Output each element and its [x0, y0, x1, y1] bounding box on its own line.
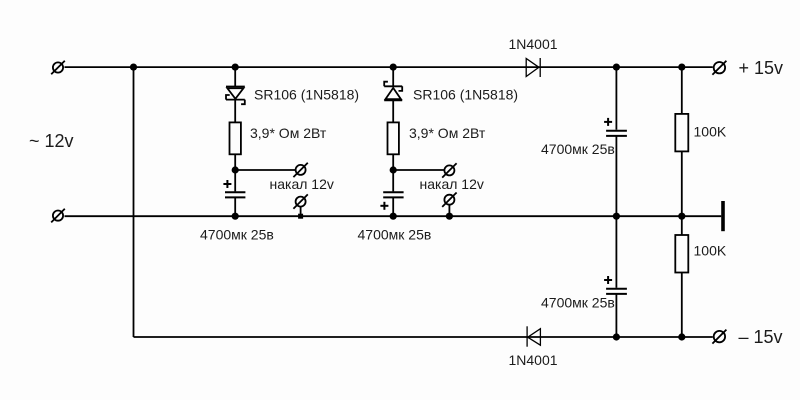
wire right cap top vertical: [615, 67, 617, 130]
wire bottom rail: [134, 336, 713, 338]
junction top rail branch 1: [232, 64, 239, 71]
plus sign capacitor branch 2: [380, 202, 388, 210]
wire resistor 100K top leads: [681, 67, 683, 114]
diode 1N4001 top (pointing right): [526, 58, 540, 77]
wire right cap bottom vertical: [615, 216, 617, 288]
wire right cap to middle rail: [615, 136, 617, 216]
plus sign capacitor bottom right: [604, 276, 612, 284]
wire branch1 lower heater terminal to rail: [300, 207, 302, 216]
capacitor 4700mk branch 2: [383, 192, 403, 197]
terminal heater lower branch 1: [293, 194, 307, 208]
junction top rail branch 2: [390, 64, 397, 71]
svg-text:+ 15v: + 15v: [739, 58, 784, 78]
wire left vertical drop to bottom rail: [133, 67, 135, 337]
terminal -15v: [712, 330, 726, 344]
svg-text:~ 12v: ~ 12v: [29, 131, 74, 151]
wire branch1 capacitor to rail: [234, 197, 236, 216]
terminal heater upper branch 1: [293, 163, 307, 177]
junction branch2 heater tap: [390, 166, 397, 173]
junction top rail right cap: [613, 64, 620, 71]
terminal heater upper branch 2: [442, 163, 456, 177]
terminal heater lower branch 2: [442, 193, 456, 207]
svg-text:1N4001: 1N4001: [509, 352, 558, 368]
svg-text:1N4001: 1N4001: [509, 36, 558, 52]
svg-text:4700мк 25в: 4700мк 25в: [358, 227, 432, 243]
terminal AC input middle-left: [51, 209, 65, 223]
wire branch1 diode to resistor: [234, 100, 236, 123]
junction middle rail right cap: [613, 213, 620, 220]
plus sign capacitor top right: [604, 118, 612, 126]
wire bottom right cap to bottom rail: [615, 294, 617, 337]
schottky diode SR106 branch 1 (cathode down): [226, 87, 245, 105]
resistor 100K bottom: [675, 235, 688, 273]
junction bottom rail right cap: [613, 333, 620, 340]
junction square branch1 heater on rail: [298, 214, 303, 219]
svg-text:– 15v: – 15v: [739, 327, 783, 347]
wire 100K bottom to bottom rail: [681, 273, 683, 338]
wire 100K top to middle rail: [681, 151, 683, 216]
wire branch2 diode to resistor: [392, 100, 394, 122]
wire 100K bottom upper lead: [681, 216, 683, 235]
svg-text:4700мк 25в: 4700мк 25в: [541, 141, 615, 157]
junction branch2 heater on rail: [446, 213, 453, 220]
wire branch2 lower heater terminal to rail: [448, 205, 450, 216]
wire branch2 heater tap to terminal: [393, 169, 444, 171]
svg-text:100K: 100K: [694, 243, 727, 259]
svg-text:3,9* Ом 2Вт: 3,9* Ом 2Вт: [250, 125, 327, 141]
capacitor 4700mk top right: [606, 131, 627, 136]
svg-text:4700мк 25в: 4700мк 25в: [200, 227, 274, 243]
diode 1N4001 bottom (pointing left): [527, 326, 540, 346]
svg-text:3,9* Ом 2Вт: 3,9* Ом 2Вт: [409, 125, 486, 141]
plus sign capacitor branch 1: [223, 180, 231, 188]
capacitor 4700mk bottom right: [606, 289, 627, 294]
wire branch2 capacitor to rail: [392, 197, 394, 216]
wire branch1 from top rail to diode: [234, 67, 236, 86]
junction middle rail right resistor: [678, 213, 685, 220]
wire middle common rail: [65, 215, 722, 217]
ground bar: [721, 201, 725, 231]
wire branch1 resistor to capacitor: [234, 154, 236, 191]
svg-text:100K: 100K: [694, 123, 727, 139]
wire branch2 from top rail to diode: [392, 67, 394, 86]
wire top rail: [65, 66, 713, 68]
junction bottom rail right resistor: [678, 333, 685, 340]
svg-text:накал 12v: накал 12v: [420, 176, 484, 192]
junction top rail at left drop: [130, 64, 137, 71]
junction branch2 on middle rail: [390, 213, 397, 220]
svg-text:4700мк 25в: 4700мк 25в: [541, 294, 615, 310]
resistor 3,9 Ohm branch 2: [388, 122, 399, 154]
junction branch1 on middle rail: [232, 213, 239, 220]
schottky diode SR106 branch 2 (cathode up): [384, 82, 402, 101]
junction top rail right resistor: [678, 64, 685, 71]
svg-text:SR106 (1N5818): SR106 (1N5818): [254, 87, 359, 103]
resistor 3,9 Ohm branch 1: [230, 122, 241, 154]
terminal AC input top-left: [51, 61, 65, 75]
svg-text:SR106 (1N5818): SR106 (1N5818): [413, 87, 518, 103]
wire branch2 resistor to capacitor: [392, 154, 394, 191]
capacitor 4700mk branch 1: [225, 192, 245, 197]
wire branch1 heater tap to terminal: [235, 169, 296, 171]
svg-text:накал 12v: накал 12v: [270, 176, 334, 192]
resistor 100K top: [675, 114, 688, 151]
junction branch1 heater tap: [232, 166, 239, 173]
terminal +15v: [712, 61, 726, 75]
